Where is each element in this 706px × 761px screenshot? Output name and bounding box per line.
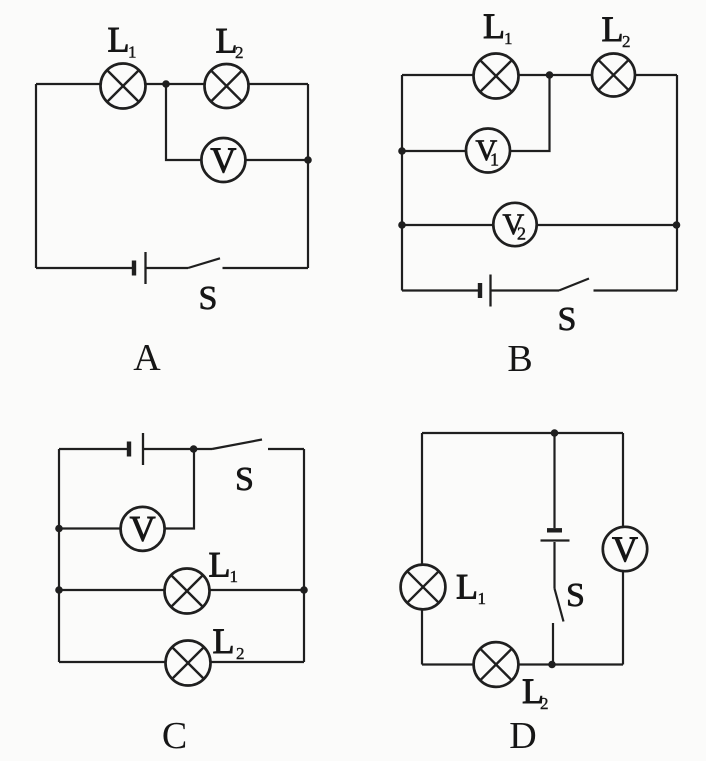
label L2 xyxy=(522,671,549,713)
svg-text:B: B xyxy=(507,338,532,380)
wire A left side xyxy=(35,84,37,268)
junction node V2 right (B) xyxy=(673,221,681,229)
wire C L2 row xyxy=(59,661,304,663)
wire B bottom left (to battery) xyxy=(402,289,478,291)
junction node between L1 and L2 (A) xyxy=(162,80,170,88)
svg-text:S: S xyxy=(566,577,585,614)
junction node bottom (D) xyxy=(548,661,556,669)
wire D bottom xyxy=(422,663,623,665)
svg-text:2: 2 xyxy=(235,43,244,62)
switch S (D) blade xyxy=(555,589,564,622)
label L2 xyxy=(602,9,631,51)
svg-text:L: L xyxy=(213,621,235,661)
switch S (B) blade xyxy=(559,279,589,291)
svg-text:L: L xyxy=(602,9,624,49)
svg-text:A: A xyxy=(133,337,161,379)
wire A right side xyxy=(307,84,309,268)
junction node top (D) xyxy=(551,429,559,437)
lamp L2 (D) xyxy=(474,642,519,687)
wire C top left (to battery) xyxy=(59,448,127,450)
label L1 xyxy=(456,567,486,609)
wire C left side xyxy=(58,449,60,662)
lamp L2 (A) xyxy=(205,64,249,108)
junction node between L1 and L2 (B) xyxy=(546,71,554,79)
lamp L1 (D) xyxy=(401,565,446,610)
svg-text:V: V xyxy=(612,529,638,569)
svg-text:L: L xyxy=(209,545,231,585)
voltmeter V (D) xyxy=(603,527,647,571)
wire C L1 row xyxy=(59,589,304,591)
svg-text:2: 2 xyxy=(540,694,549,713)
battery (D) xyxy=(541,530,570,540)
battery C xyxy=(129,433,143,465)
wire B right side xyxy=(676,75,678,291)
junction node L1 left (C) xyxy=(55,586,63,594)
wire D battery to switch xyxy=(553,542,555,589)
svg-text:2: 2 xyxy=(622,32,631,51)
wire C top mid (battery to switch) xyxy=(144,448,212,450)
label L2 xyxy=(213,621,245,663)
wire A voltmeter branch xyxy=(166,84,308,160)
wire B left side xyxy=(401,75,403,291)
lamp L1 (A) xyxy=(101,64,146,109)
svg-text:V: V xyxy=(130,509,156,549)
wire D right side xyxy=(622,433,624,665)
svg-text:1: 1 xyxy=(504,29,513,48)
lamp L1 (C) xyxy=(165,569,210,614)
voltmeter V2 (B) xyxy=(493,203,536,246)
lamp L2 (B) xyxy=(592,54,635,97)
wire B bottom mid (battery to switch) xyxy=(492,289,560,291)
svg-text:1: 1 xyxy=(128,43,137,62)
wire A top xyxy=(36,83,308,85)
voltmeter V (A) xyxy=(201,138,245,182)
wire D switch fixed contact xyxy=(552,623,554,665)
battery A xyxy=(134,252,146,284)
svg-text:D: D xyxy=(509,715,536,757)
voltmeter V1 (B) xyxy=(466,129,510,173)
svg-text:1: 1 xyxy=(230,567,239,586)
label L1 xyxy=(108,20,137,62)
svg-text:S: S xyxy=(558,301,577,338)
svg-text:L: L xyxy=(456,567,478,607)
junction node V branch to right wire (A) xyxy=(304,156,312,164)
label L1 xyxy=(209,545,239,587)
wire C top right (switch to corner) xyxy=(268,448,304,450)
wire A bottom right (switch to corner) xyxy=(223,267,309,269)
svg-text:2: 2 xyxy=(236,644,245,663)
label L2 xyxy=(216,21,244,63)
svg-text:S: S xyxy=(199,280,218,317)
svg-text:2: 2 xyxy=(517,224,526,244)
junction node L1 right (C) xyxy=(300,586,308,594)
svg-text:L: L xyxy=(108,20,130,60)
svg-text:S: S xyxy=(235,461,254,498)
junction node V1 to left wire (B) xyxy=(398,147,406,155)
svg-text:C: C xyxy=(162,715,187,757)
svg-text:V: V xyxy=(210,140,236,180)
wire B top xyxy=(402,74,677,76)
label L1 xyxy=(483,6,513,48)
wire B V2 row xyxy=(402,224,677,226)
wire D top xyxy=(422,432,623,434)
svg-text:1: 1 xyxy=(478,589,487,608)
wire B V1 branch xyxy=(402,75,550,151)
switch S (C) blade xyxy=(212,440,262,450)
voltmeter V (C) xyxy=(121,507,165,551)
wire C right side xyxy=(303,449,305,662)
junction node V2 left (B) xyxy=(398,221,406,229)
wire D battery branch upper xyxy=(553,433,555,528)
lamp L2 (C) xyxy=(166,641,211,686)
svg-text:L: L xyxy=(483,6,505,46)
junction node battery-switch (C) xyxy=(190,445,198,453)
wire D left side xyxy=(421,433,423,665)
wire C voltmeter branch xyxy=(59,449,194,529)
junction node V to left wire (C) xyxy=(55,525,63,533)
lamp L1 (B) xyxy=(474,54,519,99)
wire A bottom left (to battery) xyxy=(36,267,132,269)
wire A bottom mid (battery to switch) xyxy=(147,267,189,269)
battery B xyxy=(480,275,491,307)
switch S (A) blade xyxy=(188,258,220,268)
wire B bottom right (switch to corner) xyxy=(594,289,678,291)
svg-text:1: 1 xyxy=(490,150,499,170)
